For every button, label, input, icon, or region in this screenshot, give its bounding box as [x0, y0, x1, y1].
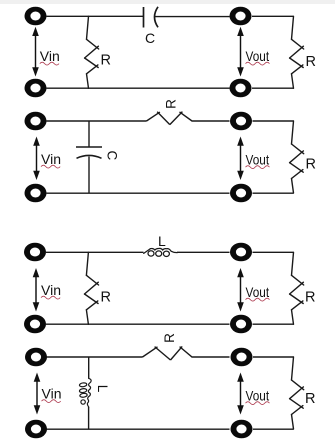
svg-text:Vout: Vout	[246, 152, 270, 168]
svg-text:R: R	[306, 54, 316, 70]
svg-text:Vin: Vin	[41, 282, 61, 298]
svg-text:R: R	[305, 290, 315, 306]
svg-text:L: L	[95, 385, 110, 393]
svg-text:R: R	[164, 99, 179, 109]
svg-text:C: C	[104, 151, 119, 161]
svg-text:Vin: Vin	[42, 386, 62, 402]
svg-text:R: R	[101, 290, 111, 306]
svg-text:R: R	[162, 333, 177, 343]
svg-text:R: R	[305, 391, 315, 407]
svg-text:Vout: Vout	[246, 284, 270, 300]
svg-text:Vout: Vout	[246, 388, 270, 404]
svg-text:L: L	[158, 233, 166, 249]
svg-text:Vin: Vin	[40, 48, 60, 64]
svg-text:Vin: Vin	[41, 151, 61, 167]
svg-text:R: R	[101, 53, 111, 69]
svg-text:Vout: Vout	[246, 48, 270, 64]
svg-text:C: C	[145, 30, 155, 46]
svg-text:R: R	[306, 157, 316, 173]
